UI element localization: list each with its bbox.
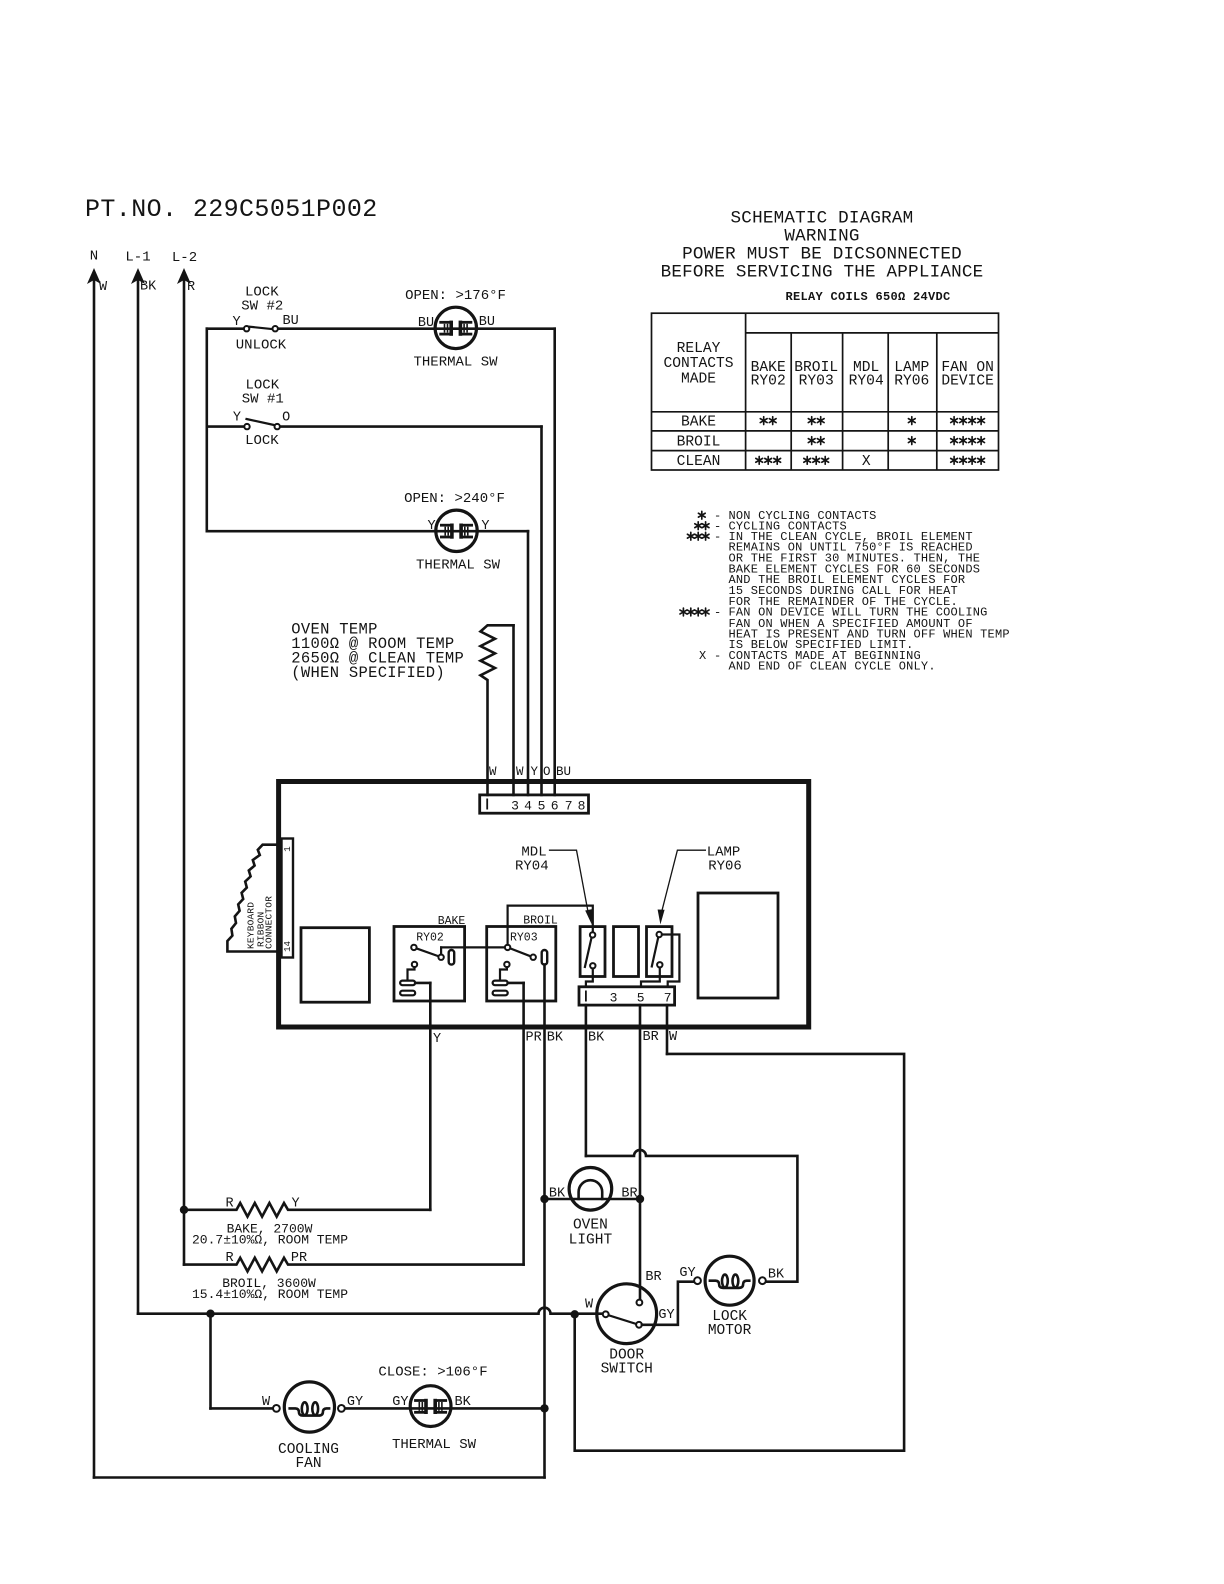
svg-text:W: W	[99, 280, 108, 295]
wire sensor jog vertical to pin 3	[512, 625, 515, 795]
svg-text:DEVICE: DEVICE	[941, 374, 994, 390]
cooling fan	[262, 1382, 363, 1472]
bake element resistor	[184, 1197, 430, 1248]
svg-text:7: 7	[565, 799, 573, 814]
node L-2	[172, 250, 197, 295]
wire labels below board	[433, 1030, 678, 1047]
svg-text:O: O	[543, 765, 551, 779]
svg-text:RY02: RY02	[416, 932, 444, 945]
board component box (left square)	[301, 928, 369, 1003]
legend star bullets	[698, 511, 705, 519]
svg-text:THERMAL SW: THERMAL SW	[392, 1437, 477, 1453]
svg-text:BU: BU	[282, 314, 298, 329]
svg-text:OPEN: >240°F: OPEN: >240°F	[404, 491, 505, 507]
wire lock branch vertical	[206, 329, 209, 532]
svg-text:L-1: L-1	[125, 250, 150, 266]
svg-text:14: 14	[283, 941, 293, 952]
svg-text:6: 6	[551, 799, 559, 814]
wire W pin7 loop right	[575, 1054, 904, 1451]
svg-text:W: W	[585, 1298, 594, 1313]
svg-text:RY03: RY03	[799, 374, 834, 390]
svg-text:THERMAL SW: THERMAL SW	[413, 355, 498, 371]
svg-text:CLOSE: >106°F: CLOSE: >106°F	[378, 1365, 487, 1381]
wire Y from bake coil down	[429, 983, 432, 1210]
svg-text:RELAY COILS 650Ω 24VDC: RELAY COILS 650Ω 24VDC	[785, 290, 950, 304]
svg-text:Y: Y	[232, 315, 240, 330]
svg-text:SWITCH: SWITCH	[601, 1362, 653, 1378]
svg-text:RELAY: RELAY	[677, 341, 721, 357]
junction W door switch	[571, 1310, 579, 1318]
svg-text:-: -	[714, 649, 721, 663]
svg-text:OVEN: OVEN	[573, 1218, 608, 1234]
svg-text:BR: BR	[645, 1270, 661, 1285]
node L-1	[125, 250, 157, 295]
svg-text:RY02: RY02	[751, 374, 786, 390]
wire BK from pin 1 down	[585, 1005, 588, 1156]
wire lock sw1 row	[207, 425, 247, 428]
svg-text:RY04: RY04	[849, 374, 884, 390]
svg-text:X: X	[699, 649, 706, 663]
relay RY06 LAMP	[641, 927, 679, 987]
wire labels above connector	[489, 765, 571, 779]
svg-text:20.7±10%Ω, ROOM TEMP: 20.7±10%Ω, ROOM TEMP	[192, 1233, 348, 1248]
thermal switch OPEN >176F	[405, 288, 506, 371]
connector J2 pins 1,3,5,7	[579, 987, 675, 1006]
lock switch SW #1	[233, 378, 290, 449]
wire thermal 240 row	[207, 530, 528, 533]
svg-text:RY04: RY04	[515, 858, 549, 874]
svg-text:BU: BU	[479, 315, 495, 330]
junction L-2 bake	[180, 1206, 188, 1214]
svg-text:FAN: FAN	[295, 1456, 321, 1472]
keyboard ribbon cable	[227, 845, 276, 952]
svg-text:GY: GY	[658, 1308, 674, 1323]
svg-text:CONTACTS: CONTACTS	[663, 356, 733, 372]
svg-text:BK: BK	[140, 280, 157, 295]
wire broil pivot up to MDL	[508, 906, 593, 945]
svg-text:4: 4	[524, 799, 532, 814]
svg-text:SW #2: SW #2	[241, 299, 283, 315]
keyboard ribbon connector	[282, 839, 294, 958]
wire fan row	[211, 1407, 274, 1410]
wire BK pin1 to lock motor (with hop over BR)	[586, 1150, 798, 1282]
svg-text:W: W	[516, 765, 524, 779]
svg-text:W: W	[262, 1395, 271, 1410]
svg-text:Y: Y	[531, 765, 539, 779]
svg-text:SW #1: SW #1	[242, 392, 284, 408]
svg-text:CLEAN: CLEAN	[677, 454, 721, 470]
svg-text:BK: BK	[588, 1031, 605, 1046]
svg-text:OPEN: >176°F: OPEN: >176°F	[405, 288, 506, 304]
svg-text:N: N	[90, 249, 98, 265]
wire O vertical to pin 5	[540, 427, 543, 795]
svg-text:BR: BR	[643, 1030, 659, 1045]
relay contacts table	[652, 313, 999, 470]
door switch	[585, 1270, 694, 1378]
svg-text:BK: BK	[547, 1031, 564, 1046]
svg-text:THERMAL SW: THERMAL SW	[416, 558, 501, 574]
svg-text:CONNECTOR: CONNECTOR	[264, 896, 275, 949]
svg-text:7: 7	[664, 991, 672, 1006]
svg-text:POWER MUST BE DICSONNECTED: POWER MUST BE DICSONNECTED	[682, 245, 962, 265]
svg-text:1: 1	[283, 846, 293, 851]
label MDL RY04 with leader	[515, 845, 592, 925]
svg-text:BK: BK	[454, 1395, 471, 1410]
legend notes	[699, 509, 1010, 674]
svg-text:WARNING: WARNING	[784, 227, 859, 247]
svg-text:-: -	[714, 530, 721, 544]
svg-text:8: 8	[578, 799, 586, 814]
junction BR oven light	[636, 1195, 644, 1203]
svg-text:BAKE: BAKE	[681, 414, 716, 430]
label LAMP RY06 with leader	[658, 845, 742, 925]
svg-text:3: 3	[610, 991, 618, 1006]
svg-text:(WHEN SPECIFIED): (WHEN SPECIFIED)	[291, 664, 445, 682]
lock motor	[679, 1256, 785, 1339]
table stars row BROIL	[808, 437, 815, 445]
keyboard ribbon connector label	[246, 896, 275, 949]
svg-text:BU: BU	[418, 316, 434, 331]
svg-text:X: X	[862, 454, 871, 470]
svg-text:MOTOR: MOTOR	[708, 1323, 752, 1339]
wire BR from pin 5 down	[639, 1005, 642, 1300]
relay RY02 BAKE	[394, 915, 465, 1001]
svg-text:5: 5	[637, 991, 645, 1006]
svg-text:O: O	[282, 410, 290, 425]
svg-text:GY: GY	[347, 1395, 363, 1410]
wire N vertical	[93, 278, 96, 1478]
wire L-1 bottom row (with hop over BK)	[138, 1308, 606, 1314]
control board outline	[279, 782, 809, 1028]
junction BK oven light	[540, 1195, 548, 1203]
svg-text:Y: Y	[233, 410, 241, 425]
svg-text:PT.NO. 229C5051P002: PT.NO. 229C5051P002	[85, 195, 378, 224]
svg-text:GY: GY	[679, 1266, 695, 1281]
svg-text:PR: PR	[526, 1031, 542, 1046]
svg-text:SCHEMATIC DIAGRAM: SCHEMATIC DIAGRAM	[731, 209, 914, 229]
svg-text:BU: BU	[556, 765, 571, 779]
lock switch SW #2	[232, 285, 298, 354]
board component box (right rectangle)	[698, 893, 778, 998]
svg-text:MADE: MADE	[681, 371, 716, 387]
svg-text:15.4±10%Ω, ROOM TEMP: 15.4±10%Ω, ROOM TEMP	[192, 1287, 348, 1302]
wire fan branch riser	[209, 1314, 212, 1409]
connector J1 pins 1-8	[480, 795, 589, 814]
thermal switch CLOSE >106F	[378, 1365, 487, 1454]
table stars row CLEAN	[756, 456, 763, 464]
board component box (blank small)	[614, 927, 639, 977]
svg-text:-: -	[714, 606, 721, 620]
oven light	[545, 1168, 641, 1249]
svg-text:W: W	[489, 765, 497, 779]
oven temp sensor label	[291, 621, 464, 683]
svg-text:AND END OF CLEAN CYCLE ONLY.: AND END OF CLEAN CYCLE ONLY.	[729, 660, 936, 674]
svg-text:UNLOCK: UNLOCK	[236, 338, 287, 354]
svg-text:BEFORE SERVICING THE APPLIANCE: BEFORE SERVICING THE APPLIANCE	[661, 263, 984, 283]
relay RY04 MDL	[580, 927, 605, 987]
svg-text:W: W	[669, 1030, 678, 1045]
wire N bottom rail	[94, 1476, 545, 1479]
svg-text:Y: Y	[481, 519, 489, 534]
wire W from pin 7 down	[666, 1005, 669, 1054]
svg-text:GY: GY	[392, 1395, 408, 1410]
svg-text:RY06: RY06	[894, 374, 929, 390]
wire BU vertical to pin 6	[553, 329, 556, 795]
svg-text:5: 5	[538, 799, 546, 814]
junction N BK fan	[540, 1404, 548, 1412]
svg-text:LOCK: LOCK	[245, 433, 279, 449]
wire PR from broil coil down	[522, 983, 525, 1265]
wire BK from broil contact down	[543, 965, 546, 1478]
wire lock sw2 row	[207, 327, 247, 330]
relay RY03 BROIL	[487, 915, 558, 1002]
warning title block	[661, 209, 984, 283]
svg-text:L-2: L-2	[172, 250, 197, 266]
node N	[87, 249, 108, 296]
wire L-1 vertical	[137, 278, 140, 1314]
wire Y vertical to pin 4	[527, 531, 530, 795]
svg-text:LIGHT: LIGHT	[569, 1233, 613, 1249]
svg-text:BK: BK	[768, 1268, 785, 1283]
oven temp sensor resistor	[481, 625, 514, 795]
svg-text:R: R	[187, 280, 195, 295]
junction fan branch	[206, 1310, 214, 1318]
svg-text:RY06: RY06	[708, 858, 742, 874]
thermal switch OPEN >240F	[404, 491, 505, 574]
wire L-2 vertical	[183, 278, 186, 1265]
svg-text:BROIL: BROIL	[677, 434, 721, 450]
broil element resistor	[184, 1251, 524, 1302]
table stars row BAKE	[760, 417, 767, 425]
svg-text:RY03: RY03	[510, 932, 538, 945]
svg-text:3: 3	[511, 799, 519, 814]
wire bake blade to broil pivot	[441, 946, 508, 948]
svg-text:Y: Y	[433, 1032, 441, 1047]
